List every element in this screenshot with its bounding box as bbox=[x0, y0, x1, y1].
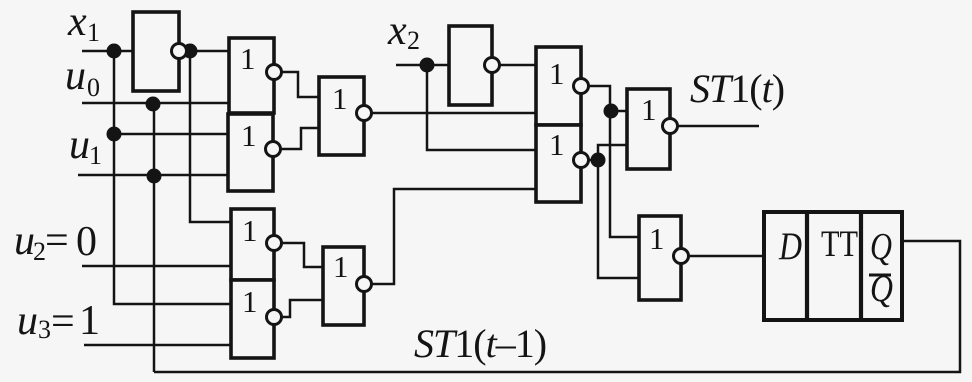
wire branch to gate G10 input 2 bbox=[598, 160, 639, 278]
wire branch to gate G10 input 1 bbox=[610, 111, 639, 237]
wire x2 vertical branch to gate G7 bbox=[427, 65, 536, 150]
node x2 junction bbox=[420, 58, 435, 73]
OR gate G4 bbox=[231, 209, 274, 280]
wire x1 vertical branch bbox=[114, 51, 231, 304]
svg-text:1: 1 bbox=[240, 41, 256, 76]
svg-text:1: 1 bbox=[549, 56, 565, 91]
svg-text:ST1(t–1): ST1(t–1) bbox=[414, 321, 546, 366]
wire gate G5 output to gate G9 bbox=[281, 300, 323, 317]
OR gate G3 bbox=[319, 77, 364, 155]
wire gate G9 output to gate G7 bbox=[371, 189, 536, 284]
wire u3 lead bbox=[84, 344, 231, 347]
svg-text:1: 1 bbox=[79, 298, 100, 344]
svg-text:3: 3 bbox=[38, 315, 51, 344]
wire x2 lead bbox=[396, 64, 449, 67]
svg-text:u: u bbox=[17, 298, 38, 344]
bubble gate G10 bbox=[674, 249, 689, 264]
wire u2 lead bbox=[82, 265, 231, 268]
wire x1 lead bbox=[82, 50, 133, 53]
svg-text:u: u bbox=[14, 218, 35, 264]
wire x1 to gate G2 input bbox=[114, 133, 229, 136]
flip-flop divider D/TT bbox=[805, 212, 809, 320]
svg-text:1: 1 bbox=[89, 141, 102, 170]
bubble gate G3 bbox=[357, 106, 372, 121]
wire inverter N1 output to gate G1 bbox=[186, 50, 229, 53]
node NOT-x1 junction bbox=[183, 44, 198, 59]
node gate G6 output junction bbox=[604, 104, 619, 119]
inverter N1 (x1) bbox=[133, 12, 179, 91]
wire NOT-x1 vertical branch to gate G4 bbox=[190, 51, 231, 222]
svg-text:Q: Q bbox=[870, 226, 892, 268]
OR gate G1 bbox=[229, 38, 274, 113]
svg-text:=: = bbox=[51, 299, 75, 345]
wire gate G7 output junction bbox=[588, 159, 598, 162]
inverter N2 (x2) bbox=[449, 26, 492, 105]
OR gate G2 bbox=[228, 114, 273, 191]
svg-text:u: u bbox=[69, 122, 90, 168]
svg-text:=: = bbox=[45, 218, 69, 264]
wire gate G6 output to gate G8 bbox=[588, 86, 627, 111]
node x1 branch junction bbox=[107, 127, 122, 142]
node u1 feedback junction bbox=[147, 169, 162, 184]
wire u0 lead bbox=[82, 102, 229, 105]
bubble gate G5 bbox=[267, 310, 282, 325]
wire feedback vertical ST1(t-1) bbox=[153, 103, 156, 372]
bubble gate G1 bbox=[267, 65, 282, 80]
svg-text:1: 1 bbox=[641, 92, 657, 127]
svg-text:1: 1 bbox=[241, 118, 257, 153]
bubble gate G4 bbox=[267, 236, 282, 251]
wire gate G4 output to gate G9 bbox=[281, 243, 323, 267]
OR gate G9 bbox=[323, 247, 364, 325]
svg-text:u: u bbox=[65, 53, 86, 99]
svg-text:ST1(t): ST1(t) bbox=[690, 66, 784, 111]
wire flip-flop Q output feedback bbox=[154, 241, 960, 372]
flip-flop TT outer box bbox=[764, 212, 902, 320]
bubble gate G2 bbox=[266, 142, 281, 157]
node x1 junction bbox=[107, 44, 122, 59]
bubble gate G8 bbox=[663, 119, 678, 134]
wire inverter N2 output to gate G6 bbox=[499, 64, 536, 67]
bubble inverter N1 bbox=[172, 44, 187, 59]
bubble gate G6 bbox=[574, 79, 589, 94]
OR gate G6 bbox=[536, 47, 581, 125]
OR gate G5 bbox=[231, 280, 274, 358]
wire u1 lead bbox=[78, 174, 228, 177]
bubble gate G9 bbox=[357, 277, 372, 292]
svg-text:1: 1 bbox=[87, 18, 100, 47]
wire gate G2 output to gate G3 bbox=[280, 128, 319, 149]
OR gate G8 (ST1 output gate) bbox=[627, 89, 670, 169]
svg-text:TT: TT bbox=[821, 224, 858, 265]
bubble gate G7 bbox=[574, 153, 589, 168]
OR gate G10 bbox=[639, 216, 681, 300]
svg-text:1: 1 bbox=[242, 213, 258, 248]
wire gate G3 output to gate G6 bbox=[371, 112, 536, 115]
svg-text:1: 1 bbox=[649, 221, 665, 256]
wire gate G1 output to gate G3 bbox=[281, 72, 319, 97]
svg-text:0: 0 bbox=[76, 219, 97, 265]
node gate G7 output junction bbox=[591, 153, 606, 168]
svg-text:2: 2 bbox=[407, 26, 420, 55]
svg-text:1: 1 bbox=[332, 81, 348, 116]
wire ST1(t) output bbox=[677, 125, 759, 128]
svg-text:1: 1 bbox=[549, 127, 565, 162]
OR gate G7 bbox=[536, 125, 581, 202]
svg-text:1: 1 bbox=[242, 284, 258, 319]
svg-text:x: x bbox=[387, 8, 407, 54]
svg-text:x: x bbox=[67, 0, 87, 45]
svg-text:D: D bbox=[778, 225, 802, 268]
flip-flop divider TT/Q bbox=[859, 212, 863, 320]
overbar of Q-bar bbox=[869, 274, 891, 277]
wire branch to gate G8 input 2 bbox=[598, 145, 627, 160]
svg-text:1: 1 bbox=[333, 249, 349, 284]
svg-text:0: 0 bbox=[87, 73, 100, 102]
wire gate G10 output to flip-flop D input bbox=[688, 255, 764, 258]
bubble inverter N2 bbox=[485, 58, 500, 73]
node u0 feedback junction bbox=[146, 97, 161, 112]
